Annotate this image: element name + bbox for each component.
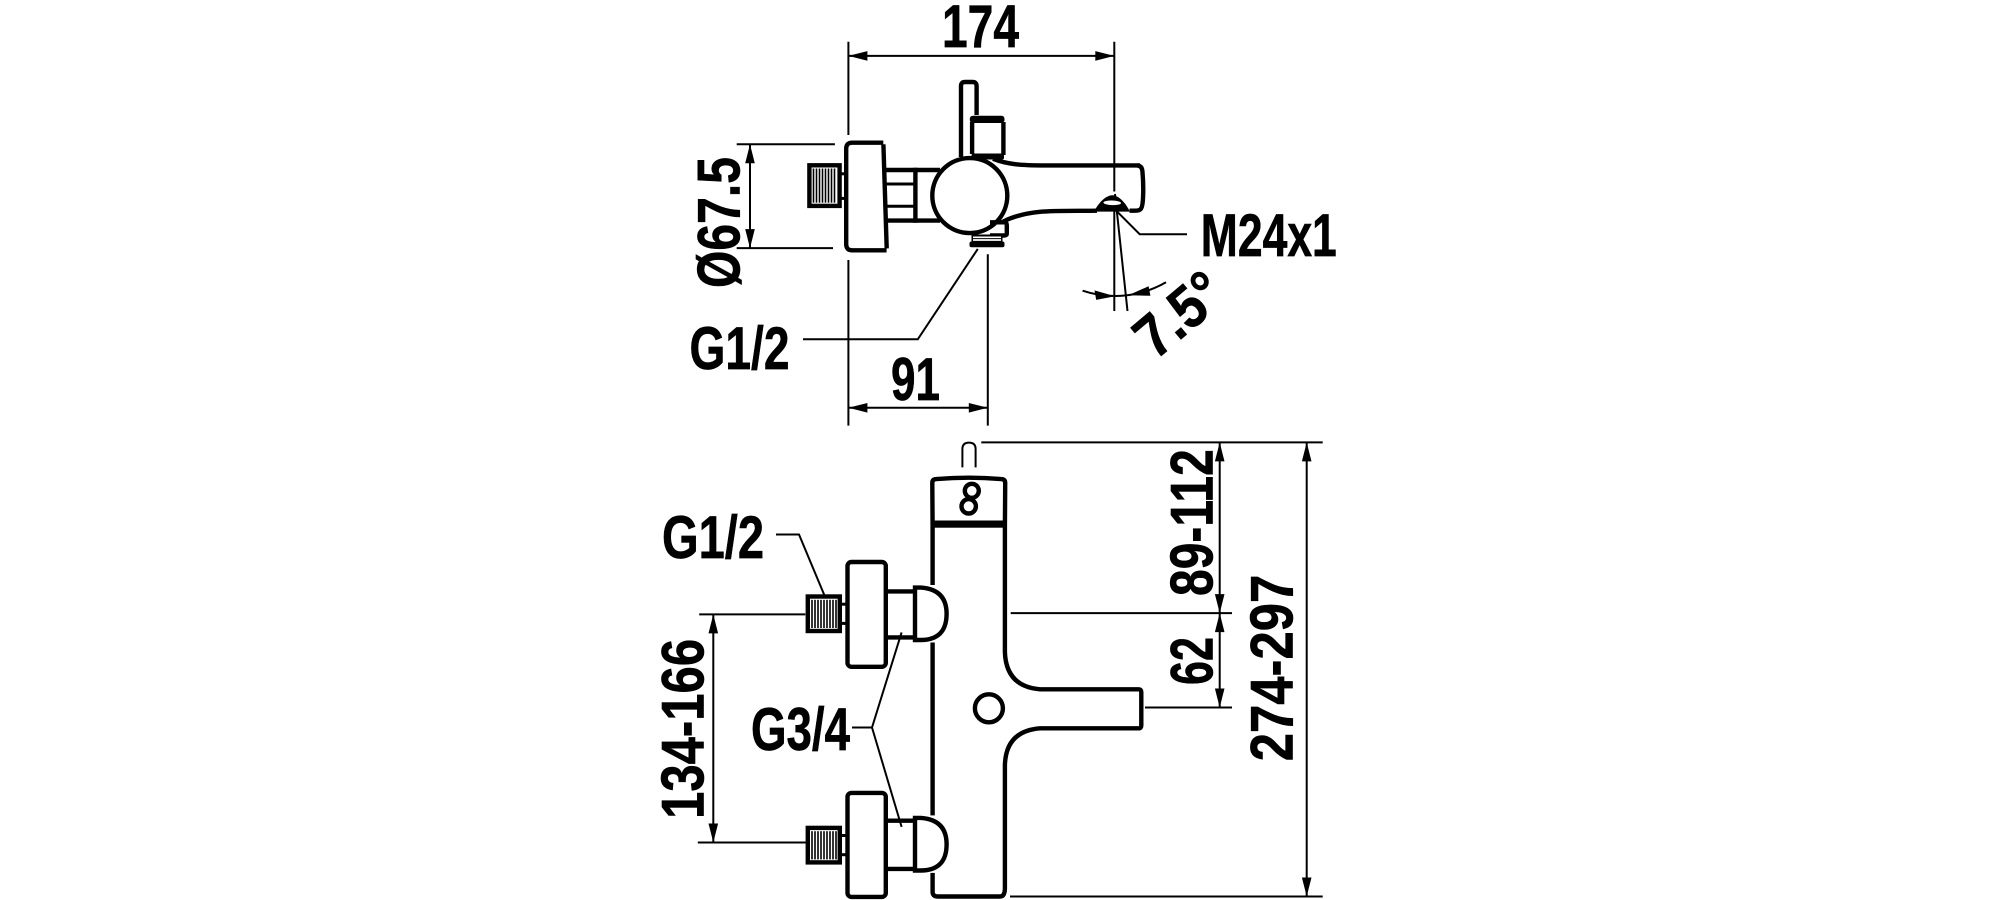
svg-text:Ø67.5: Ø67.5 bbox=[686, 157, 753, 288]
svg-text:134-166: 134-166 bbox=[650, 639, 717, 819]
svg-text:89-112: 89-112 bbox=[1159, 449, 1226, 596]
svg-text:G1/2: G1/2 bbox=[662, 504, 764, 571]
svg-text:174: 174 bbox=[942, 0, 1019, 60]
svg-text:62: 62 bbox=[1159, 637, 1226, 685]
svg-text:274-297: 274-297 bbox=[1239, 575, 1306, 762]
svg-text:M24x1: M24x1 bbox=[1201, 202, 1337, 269]
svg-text:G3/4: G3/4 bbox=[751, 696, 850, 763]
svg-text:91: 91 bbox=[891, 346, 940, 413]
svg-text:G1/2: G1/2 bbox=[690, 315, 790, 382]
